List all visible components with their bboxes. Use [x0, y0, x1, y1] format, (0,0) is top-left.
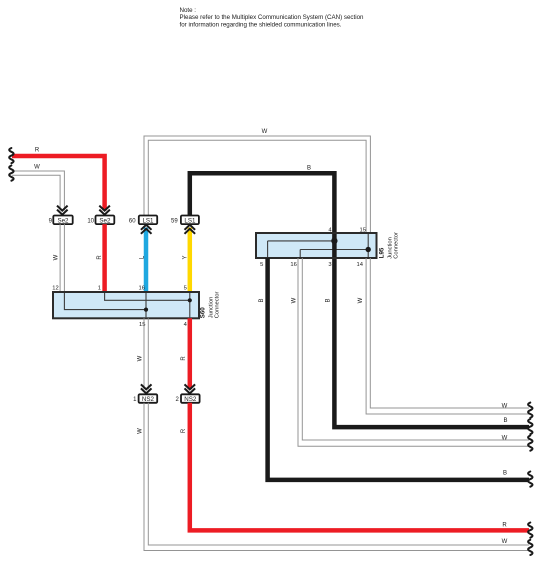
connector 2 NS2	[176, 384, 200, 403]
junction connector S60	[52, 285, 220, 328]
svg-text:W: W	[262, 129, 268, 135]
break symbol (W pin14)	[528, 403, 532, 418]
svg-text:1: 1	[133, 397, 137, 403]
svg-text:W: W	[358, 297, 364, 303]
break symbol (B pin3)	[528, 419, 532, 434]
wire W shield top (60 LS1 to L95 pin 15)	[144, 136, 370, 234]
svg-text:Junction: Junction	[387, 237, 393, 259]
svg-text:R: R	[97, 255, 103, 260]
svg-text:Connector: Connector	[214, 291, 220, 318]
svg-text:W: W	[292, 297, 298, 303]
break symbol (B pin5)	[528, 472, 532, 487]
wire W shield (1 NS2 to bottom exit)	[144, 403, 529, 551]
svg-text:LS1: LS1	[184, 218, 196, 225]
junction connector L95	[256, 227, 400, 267]
svg-text:L95: L95	[378, 247, 385, 258]
connector 59 LS1	[171, 216, 199, 225]
connector arrow 59 LS1	[185, 225, 196, 234]
svg-text:Y: Y	[183, 255, 189, 259]
connector 60 LS1	[129, 216, 157, 225]
svg-text:for information regarding the: for information regarding the shielded c…	[180, 21, 342, 28]
wire W shield (L95 pin 16 exit)	[298, 258, 529, 446]
svg-text:15: 15	[360, 227, 366, 233]
svg-text:B: B	[259, 298, 265, 302]
svg-text:Please refer to the Multiplex: Please refer to the Multiplex Communicat…	[180, 14, 365, 21]
svg-text:R: R	[35, 148, 40, 154]
wire R (10 Se2 to S60 pin 1)	[102, 224, 107, 292]
wire Y (59 LS1 to S60 pin 5)	[188, 228, 193, 293]
svg-text:B: B	[307, 165, 311, 171]
black passes through box	[332, 234, 337, 257]
svg-text:B: B	[325, 298, 331, 302]
svg-text:2: 2	[176, 397, 180, 403]
svg-text:16: 16	[290, 262, 296, 268]
svg-text:R: R	[502, 522, 507, 528]
junction dot	[188, 298, 192, 302]
svg-text:B: B	[503, 418, 507, 424]
connector 1 NS2	[133, 384, 157, 403]
svg-text:W: W	[137, 428, 143, 434]
svg-text:S60: S60	[200, 307, 207, 319]
svg-text:15: 15	[139, 322, 145, 328]
connector arrow 60 LS1	[141, 225, 152, 234]
break symbol left (W)	[9, 166, 13, 181]
wire B (L95 pin 5 exit)	[268, 258, 529, 480]
svg-text:Connector: Connector	[394, 232, 400, 259]
svg-text:LS1: LS1	[142, 218, 154, 225]
svg-text:W: W	[34, 165, 40, 171]
svg-text:4: 4	[184, 322, 188, 328]
wire R top-left (to 10 Se2)	[12, 156, 105, 210]
wire L (60 LS1 to S60 pin 16)	[144, 228, 149, 293]
break symbol (R bottom)	[528, 523, 532, 538]
wire W shield (9 Se2 to S60 pin 12)	[60, 224, 64, 292]
wire W shield (S60 pin 15 to 1 NS2)	[144, 318, 148, 389]
svg-text:W: W	[502, 539, 508, 545]
svg-text:9: 9	[49, 219, 53, 225]
svg-text:60: 60	[129, 219, 136, 225]
connector 10 Se2	[87, 206, 114, 225]
note text	[180, 7, 365, 28]
svg-text:5: 5	[260, 262, 263, 268]
wire R (2 NS2 to bottom exit)	[190, 403, 529, 531]
svg-text:NS2: NS2	[184, 396, 197, 403]
junction dot	[366, 247, 371, 252]
svg-text:1: 1	[98, 285, 101, 291]
svg-text:Se2: Se2	[99, 218, 111, 225]
wire B (59 LS1 to L95 pin 4, through L95 to pin 3 exit)	[190, 173, 529, 427]
svg-text:Note :: Note :	[180, 7, 197, 14]
svg-text:W: W	[502, 435, 508, 441]
svg-text:5: 5	[184, 285, 187, 291]
svg-text:3: 3	[328, 262, 331, 268]
svg-text:14: 14	[357, 262, 364, 268]
svg-text:B: B	[503, 471, 507, 477]
junction dot	[144, 308, 148, 312]
wire R (S60 pin 4 to 2 NS2)	[188, 318, 193, 389]
svg-text:W: W	[137, 355, 143, 361]
svg-text:16: 16	[139, 285, 145, 291]
wire W shield (L95 pin 14 exit)	[366, 258, 529, 414]
junction dot	[331, 238, 337, 244]
svg-text:10: 10	[87, 219, 94, 225]
svg-text:W: W	[502, 403, 508, 409]
svg-text:Se2: Se2	[57, 218, 69, 225]
svg-text:W: W	[54, 254, 60, 260]
break symbol (W bottom)	[528, 540, 532, 555]
break symbol left (R)	[9, 148, 13, 163]
connector 9 Se2	[49, 206, 73, 225]
svg-text:12: 12	[52, 285, 58, 291]
svg-text:R: R	[181, 428, 187, 433]
wire W shield top-left (to 9 Se2)	[12, 171, 64, 210]
svg-text:59: 59	[171, 219, 178, 225]
svg-text:R: R	[181, 356, 187, 361]
svg-text:NS2: NS2	[142, 396, 155, 403]
break symbol (W pin16)	[528, 436, 532, 451]
